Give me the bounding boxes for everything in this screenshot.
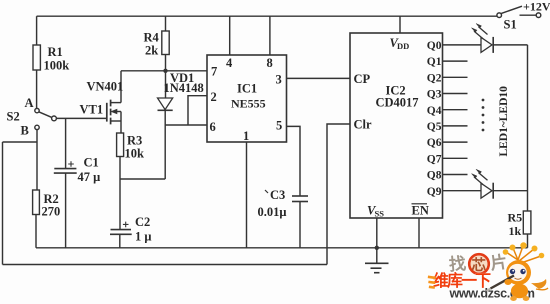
wire Q2 stub	[443, 76, 468, 78]
wire VDD	[399, 16, 401, 33]
wire pin 5 to C3	[287, 126, 301, 196]
wire Q8 stub	[443, 174, 468, 176]
switch S1	[497, 6, 541, 17]
svg-text:Q5: Q5	[427, 121, 442, 133]
svg-text:找: 找	[448, 253, 467, 274]
dots (LED2-LED9 implied)	[482, 99, 485, 132]
diode VD1	[158, 71, 204, 179]
LED LED1	[472, 24, 494, 53]
wire pin 2	[188, 96, 207, 125]
wire Q1 stub	[443, 60, 468, 62]
svg-text:芯: 芯	[472, 256, 487, 274]
svg-text:8: 8	[267, 56, 273, 70]
svg-text:1N4148: 1N4148	[164, 81, 204, 95]
svg-text:R5: R5	[508, 211, 523, 225]
wire drain to R4 junction	[121, 70, 166, 72]
resistor R4	[144, 16, 170, 71]
wire Q4 stub	[443, 109, 468, 111]
svg-text:EN: EN	[412, 204, 429, 218]
wire LED bus	[527, 45, 529, 211]
wire bottom outer return	[3, 264, 328, 266]
svg-text:VT1: VT1	[80, 103, 104, 117]
wire Q7 stub	[443, 157, 468, 159]
svg-text:R3: R3	[127, 134, 142, 148]
watermark logo	[428, 251, 535, 300]
svg-text:Q4: Q4	[427, 105, 442, 117]
wire pin 4	[229, 16, 231, 55]
IC U2 CD4017	[350, 33, 443, 219]
junction VSS/ground rail	[375, 246, 379, 250]
svg-text:1: 1	[243, 129, 249, 143]
svg-text:Q7: Q7	[427, 153, 442, 165]
wire timing node horizontal	[120, 178, 165, 180]
svg-text:2k: 2k	[145, 44, 158, 58]
ground	[365, 248, 389, 273]
svg-text:0.01μ: 0.01μ	[258, 205, 287, 219]
svg-text:CD4017: CD4017	[376, 96, 419, 110]
svg-text:47 μ: 47 μ	[78, 170, 101, 184]
svg-text:+12V: +12V	[523, 0, 550, 14]
svg-text:1k: 1k	[509, 224, 522, 238]
wire Clr riser	[327, 124, 350, 265]
wire R3 down to C2	[119, 179, 121, 230]
svg-text:Q1: Q1	[427, 56, 442, 68]
svg-text:SS: SS	[375, 209, 385, 219]
svg-text:Clr: Clr	[354, 118, 373, 132]
svg-text:S2: S2	[7, 110, 20, 124]
wire node B down to R2	[36, 130, 38, 190]
svg-text:3: 3	[276, 73, 282, 87]
wire Q3 stub	[443, 93, 468, 95]
ground rail	[36, 247, 528, 249]
svg-text:A: A	[25, 96, 34, 110]
svg-text:IC1: IC1	[237, 82, 257, 96]
resistor R3	[117, 133, 144, 179]
svg-text:B: B	[21, 124, 29, 138]
wire left outer riser	[2, 142, 4, 265]
wire VSS to ground rail	[376, 218, 378, 248]
wire Q5 stub	[443, 125, 468, 127]
svg-text:Q9: Q9	[427, 186, 442, 198]
resistor R1	[33, 16, 69, 108]
capacitor C3	[258, 188, 309, 248]
svg-text:5: 5	[276, 119, 282, 133]
svg-text:C1: C1	[84, 156, 99, 170]
svg-text:10k: 10k	[125, 147, 145, 161]
wire S2 pole to gate	[56, 117, 106, 119]
svg-text:7: 7	[211, 65, 217, 79]
svg-text:C3: C3	[270, 188, 285, 202]
svg-text:VN401: VN401	[87, 80, 124, 94]
wire pin 6	[165, 124, 207, 126]
wire pin 1 to ground	[246, 142, 248, 248]
svg-text:LED1~LED10: LED1~LED10	[496, 86, 510, 157]
svg-text:270: 270	[42, 205, 61, 219]
svg-text:CP: CP	[354, 72, 371, 86]
svg-text:100k: 100k	[44, 59, 70, 73]
wire pin 8	[269, 16, 271, 55]
wire pin 3 to CP	[287, 77, 351, 79]
svg-text:C2: C2	[135, 215, 150, 229]
capacitor C2	[110, 215, 151, 248]
svg-text:S1: S1	[504, 18, 517, 32]
svg-text:Q6: Q6	[427, 137, 442, 149]
transistor VT1 (VN401 MOSFET)	[80, 71, 124, 133]
svg-text:6: 6	[210, 120, 216, 134]
wire EN to ground rail	[418, 218, 420, 248]
svg-text:2: 2	[211, 90, 217, 104]
svg-text:DD: DD	[397, 41, 409, 51]
svg-text:Q3: Q3	[427, 89, 442, 101]
svg-text:Q8: Q8	[427, 170, 442, 182]
switch S2	[35, 108, 57, 129]
svg-text:Q2: Q2	[427, 72, 442, 84]
junction R4/VD1/pin7	[163, 69, 167, 73]
wire LED10 to bus	[493, 190, 527, 192]
svg-text:R4: R4	[144, 31, 160, 45]
watermark mascot	[487, 242, 549, 301]
wire Q9 to LED10	[443, 190, 482, 192]
wire +12V top rail	[37, 15, 497, 17]
svg-text:NE555: NE555	[231, 97, 266, 111]
resistor R2	[33, 190, 61, 248]
LED LED10	[472, 169, 494, 198]
wire node B to outer loop	[3, 141, 38, 143]
wire junction to pin 7	[166, 70, 208, 72]
resistor R5	[508, 211, 531, 248]
svg-text:Q0: Q0	[427, 40, 442, 52]
wire LED1 to bus	[493, 44, 527, 46]
wire Q6 stub	[443, 141, 468, 143]
svg-text:R1: R1	[48, 45, 63, 59]
svg-text:4: 4	[226, 56, 233, 70]
IC U1 NE555	[207, 55, 287, 143]
wire Q0 to LED1	[443, 44, 482, 46]
svg-text:1 μ: 1 μ	[135, 230, 151, 244]
capacitor C1	[54, 118, 100, 247]
